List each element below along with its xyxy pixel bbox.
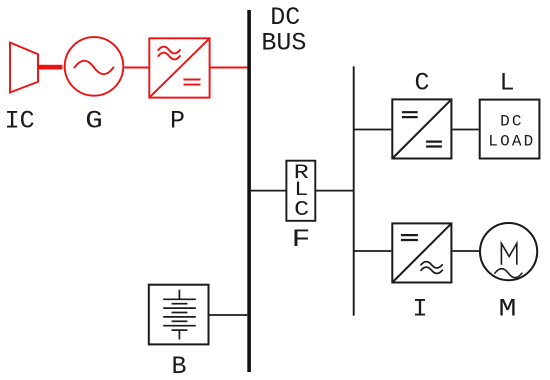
DC bus bar	[247, 10, 251, 372]
battery plate 8 short	[172, 329, 188, 331]
wire P to bus	[211, 67, 248, 69]
filter RLC box	[286, 161, 315, 221]
motor letter M	[501, 243, 516, 264]
svg-text:B: B	[171, 352, 186, 380]
load box L	[480, 100, 540, 159]
motor M circle	[480, 223, 537, 280]
generator sine wave	[75, 61, 114, 75]
battery plate 6 short	[172, 320, 188, 322]
svg-text:BUS: BUS	[261, 28, 306, 57]
svg-text:M: M	[499, 294, 517, 323]
battery plate 2 short	[172, 303, 188, 305]
battery stem top	[178, 290, 180, 300]
converter P AC symbol	[158, 47, 180, 60]
generator G circle	[65, 37, 124, 96]
battery B box	[149, 285, 209, 345]
wire branch to I	[354, 250, 392, 252]
converter C diagonal	[392, 99, 451, 158]
converter P box	[149, 38, 209, 97]
svg-text:G: G	[85, 106, 103, 135]
converter C DC symbol bottom	[426, 142, 442, 147]
engine IC trapezoid	[10, 43, 38, 93]
converter P diagonal	[149, 38, 209, 97]
battery plate 1 long	[163, 298, 196, 300]
wire battery to bus	[210, 314, 248, 316]
battery plate 5 long	[163, 316, 196, 318]
svg-text:I: I	[412, 294, 427, 323]
inverter I AC symbol	[421, 262, 442, 274]
converter P DC symbol	[184, 80, 201, 85]
svg-text:DC: DC	[500, 112, 524, 130]
battery stem bottom	[178, 330, 180, 339]
inverter I box	[392, 223, 451, 282]
battery plate 4 short	[172, 312, 188, 314]
svg-text:L: L	[499, 68, 514, 97]
svg-text:C: C	[294, 199, 309, 222]
wire C to load	[452, 129, 478, 131]
branch line	[353, 66, 355, 315]
wire I to motor	[452, 250, 479, 252]
converter C DC symbol top	[402, 112, 418, 117]
svg-text:P: P	[170, 106, 185, 135]
wire G to P	[124, 67, 148, 69]
svg-text:F: F	[292, 225, 311, 254]
motor tilde	[495, 269, 522, 278]
converter C box	[392, 99, 451, 158]
svg-text:C: C	[414, 68, 429, 97]
svg-text:LOAD: LOAD	[488, 133, 535, 151]
battery plate 7 long	[163, 325, 196, 327]
battery plate 3 long	[163, 307, 196, 309]
shaft coupling	[37, 65, 63, 70]
svg-text:IC: IC	[5, 106, 35, 135]
wire branch to C	[354, 129, 392, 131]
inverter I DC symbol	[401, 235, 418, 240]
wire bus to branch through filter	[251, 190, 354, 192]
inverter I diagonal	[392, 223, 451, 282]
